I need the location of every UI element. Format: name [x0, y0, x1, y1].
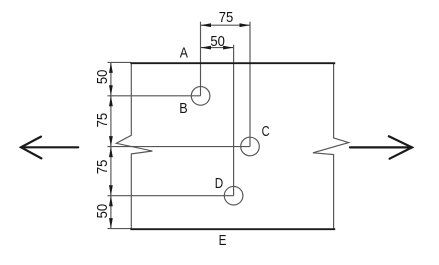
svg-text:50: 50 [93, 69, 110, 84]
svg-text:A: A [180, 44, 189, 60]
svg-text:B: B [179, 99, 187, 116]
svg-text:75: 75 [93, 159, 110, 174]
svg-text:D: D [215, 175, 224, 192]
svg-text:75: 75 [219, 8, 234, 25]
svg-text:C: C [262, 122, 270, 139]
svg-text:E: E [219, 231, 227, 248]
svg-text:50: 50 [210, 32, 225, 49]
svg-text:50: 50 [93, 204, 110, 219]
svg-text:75: 75 [93, 113, 110, 128]
